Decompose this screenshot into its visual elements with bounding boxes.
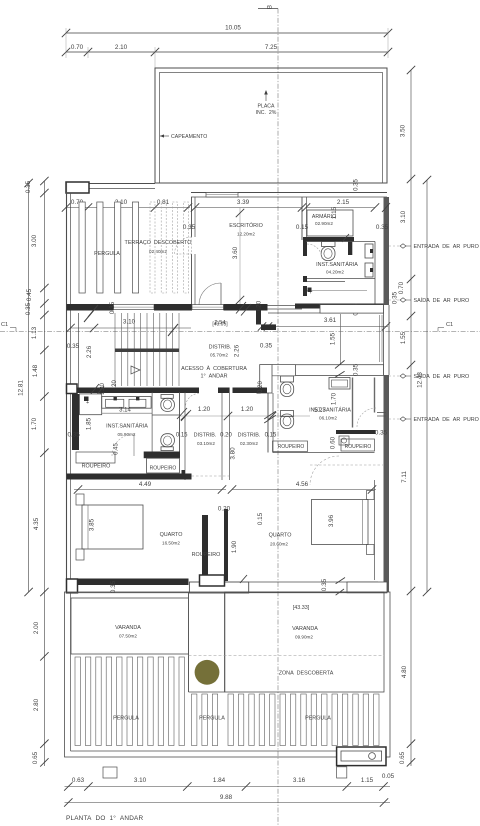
toilet 2 bowl xyxy=(161,434,175,447)
heater box xyxy=(339,436,349,445)
closet box right xyxy=(341,439,375,451)
right exterior wall lower xyxy=(384,375,390,592)
armario closet box xyxy=(307,210,353,236)
label SAIDA DE AR PURO 1 xyxy=(389,299,399,301)
svg-text:0.35: 0.35 xyxy=(376,224,389,231)
svg-text:0.45: 0.45 xyxy=(114,443,120,455)
svg-text:0.70: 0.70 xyxy=(398,281,405,294)
svg-text:ENTRADA DE AR PURO: ENTRADA DE AR PURO xyxy=(414,244,479,250)
svg-text:0.60: 0.60 xyxy=(330,436,337,449)
bathroom top wall segment a xyxy=(192,388,199,394)
escritorio vertical dim 3.60 xyxy=(239,208,241,306)
svg-text:2.26: 2.26 xyxy=(86,345,93,358)
svg-text:03.10m2: 03.10m2 xyxy=(197,441,215,446)
door arc left bathroom dashed xyxy=(112,434,134,456)
svg-text:1.15: 1.15 xyxy=(331,206,338,219)
extension lines top xyxy=(65,28,67,58)
bottom overall dim 9.88 xyxy=(65,802,391,804)
wall band y365-374 xyxy=(296,365,384,376)
bathroom bottom wall xyxy=(307,278,375,280)
svg-text:2.15: 2.15 xyxy=(337,199,350,206)
svg-text:12.81: 12.81 xyxy=(18,380,25,396)
door arc inst sanitaria top xyxy=(307,244,322,259)
left dim line outer 12.81 xyxy=(28,183,30,592)
armario bottom wall xyxy=(306,237,354,242)
svg-text:ESCRITÓRIO: ESCRITÓRIO xyxy=(229,222,263,229)
vanity basin 2 xyxy=(129,399,146,407)
door arc quarto right xyxy=(310,456,339,485)
bed right quarto xyxy=(312,500,369,545)
middle column walls xyxy=(188,592,190,692)
left dim line inner xyxy=(43,181,45,766)
break slashes right bottom wall xyxy=(336,578,345,584)
toilet 1 tank xyxy=(161,395,173,399)
right wall window section xyxy=(383,305,385,375)
bottom wall right thin line xyxy=(249,581,378,583)
bath wall vertical gray 2 xyxy=(374,378,376,413)
break slash armario bottom right xyxy=(342,234,349,242)
wall piece right of armario xyxy=(348,238,352,255)
label PLACA INC. 2% with up arrow xyxy=(265,92,267,101)
svg-text:2.10: 2.10 xyxy=(115,44,128,51)
pergola stripes middle xyxy=(192,694,197,746)
svg-text:0.15: 0.15 xyxy=(265,433,277,439)
svg-text:1.20: 1.20 xyxy=(198,406,211,413)
toilet 2 tank xyxy=(161,447,173,451)
svg-text:2.00: 2.00 xyxy=(33,621,40,634)
quarto right inner wall line xyxy=(374,480,376,580)
svg-text:0.35: 0.35 xyxy=(353,363,360,376)
right bathroom left wall double lines xyxy=(267,393,269,453)
varanda left box xyxy=(71,598,189,654)
svg-text:PERGULA: PERGULA xyxy=(94,251,120,257)
mid wall segment 3 xyxy=(224,304,268,311)
svg-text:02.90m2: 02.90m2 xyxy=(315,221,333,226)
svg-text:1.48: 1.48 xyxy=(32,364,39,377)
right exterior wall xyxy=(384,197,390,305)
break slash right bathroom wall xyxy=(264,411,276,419)
label ENTRADA DE AR PURO 2 xyxy=(389,418,399,420)
svg-text:[43.05]: [43.05] xyxy=(212,322,228,328)
stair break slash 2 xyxy=(168,324,178,336)
svg-text:TERRAÇO DESCOBERTO: TERRAÇO DESCOBERTO xyxy=(125,240,192,246)
bedside table 2 xyxy=(76,549,84,560)
mid wall window 2 xyxy=(192,305,224,310)
svg-text:0.35: 0.35 xyxy=(110,580,117,593)
stair left wall xyxy=(78,313,80,393)
svg-text:1.55: 1.55 xyxy=(330,332,337,345)
svg-text:4.49: 4.49 xyxy=(139,481,152,488)
tree circle olive xyxy=(195,660,220,685)
electrical box inner xyxy=(341,751,382,761)
svg-text:3.96: 3.96 xyxy=(328,514,335,527)
svg-text:ROUPEIRO: ROUPEIRO xyxy=(150,466,177,472)
svg-text:4.80: 4.80 xyxy=(401,665,408,678)
terrace boundary outer xyxy=(65,592,391,757)
terrace boundary inner bottom xyxy=(71,750,385,752)
dashed line corridor bottom xyxy=(187,475,229,477)
stair break slash 1 xyxy=(88,305,98,317)
toilet WC top-right tank xyxy=(322,242,336,247)
WC divider line xyxy=(152,414,179,416)
duct black corner square xyxy=(257,388,261,394)
bathroom top wall segment b xyxy=(218,388,230,394)
horizontal centreline C1 xyxy=(0,331,480,333)
svg-text:1.70: 1.70 xyxy=(31,417,38,430)
mid wall band left xyxy=(67,304,114,311)
bottom wall right white band xyxy=(347,582,387,593)
bidet right bathroom 1 xyxy=(281,376,294,382)
WC stall right wall double xyxy=(179,392,181,452)
svg-text:0.15: 0.15 xyxy=(257,512,264,525)
interior top wall escritorio/armario xyxy=(191,192,387,194)
svg-text:0.05: 0.05 xyxy=(382,773,395,780)
svg-text:ROUPEIRO: ROUPEIRO xyxy=(278,444,305,450)
label SAIDA DE AR PURO 2 xyxy=(389,375,399,377)
svg-text:PERGULA: PERGULA xyxy=(305,716,331,722)
closet corridor end white box xyxy=(189,582,248,593)
svg-text:0.45: 0.45 xyxy=(26,288,33,301)
svg-text:SAÍDA DE AR PURO: SAÍDA DE AR PURO xyxy=(414,297,470,304)
label CAPEAMENTO with arrow xyxy=(160,135,169,137)
svg-text:INST.SANITÁRIA: INST.SANITÁRIA xyxy=(106,423,148,430)
dimension 4.49 xyxy=(74,489,226,491)
svg-text:0.65: 0.65 xyxy=(399,751,406,764)
svg-text:INC. 2%: INC. 2% xyxy=(256,110,277,116)
svg-text:0.70: 0.70 xyxy=(71,44,84,51)
small room below bathroom xyxy=(303,286,307,296)
inst sanitaria 04.20 walls xyxy=(303,237,307,256)
svg-text:ZONA DESCOBERTA: ZONA DESCOBERTA xyxy=(279,671,334,677)
bottom wall right section xyxy=(295,304,384,309)
svg-text:0.81: 0.81 xyxy=(157,199,170,206)
svg-text:PERGULA: PERGULA xyxy=(113,716,139,722)
wall band above mid roupeiro xyxy=(144,452,180,459)
door arc right bathroom dashed xyxy=(357,408,376,427)
svg-text:3.60: 3.60 xyxy=(232,246,239,259)
svg-text:1.20: 1.20 xyxy=(241,406,254,413)
svg-text:SAÍDA DE AR PURO: SAÍDA DE AR PURO xyxy=(414,373,470,380)
svg-text:3.10: 3.10 xyxy=(123,319,136,326)
right dim line outer 12.43 xyxy=(426,180,428,592)
window right bathroom xyxy=(329,378,350,390)
vanity counter left bathroom xyxy=(102,397,151,409)
svg-text:02.40m2: 02.40m2 xyxy=(149,249,167,254)
shelf line small room xyxy=(307,290,367,292)
svg-text:1.15: 1.15 xyxy=(361,777,374,784)
stair landing rail xyxy=(115,349,179,353)
capeamento outer wall xyxy=(155,68,387,183)
electrical box circle xyxy=(369,753,376,760)
svg-text:VARANDA: VARANDA xyxy=(115,625,141,631)
bidet right bathroom 2 xyxy=(281,411,294,417)
dimension line 10.05 (top overall) xyxy=(66,32,388,34)
bottom wall lower line xyxy=(189,592,387,594)
svg-text:0.35: 0.35 xyxy=(354,179,360,191)
vertical line right void xyxy=(340,314,342,365)
svg-text:07.50m2: 07.50m2 xyxy=(119,634,137,639)
center walls vertical double xyxy=(221,393,223,480)
svg-text:7.25: 7.25 xyxy=(265,44,278,51)
svg-text:3.14: 3.14 xyxy=(119,408,131,414)
svg-text:C1: C1 xyxy=(1,322,8,328)
svg-text:PERGULA: PERGULA xyxy=(199,716,225,722)
svg-text:09.90m2: 09.90m2 xyxy=(295,635,313,640)
bedside table 1 xyxy=(76,494,84,505)
svg-text:CAPEAMENTO: CAPEAMENTO xyxy=(171,134,207,140)
dashed separator varanda/zona xyxy=(189,655,385,657)
bottom wall lower line left part xyxy=(67,592,190,594)
svg-text:4.35: 4.35 xyxy=(33,517,40,530)
svg-text:7.11: 7.11 xyxy=(401,471,408,483)
wall nib right xyxy=(377,412,386,414)
toilet WC top-right bowl xyxy=(321,247,335,261)
stair direction triangle xyxy=(131,366,140,374)
break slash WC wall xyxy=(177,408,187,419)
svg-text:0.35: 0.35 xyxy=(321,578,328,591)
svg-text:1.85: 1.85 xyxy=(86,417,93,430)
svg-text:1° ANDAR: 1° ANDAR xyxy=(200,374,227,380)
svg-text:06.10m2: 06.10m2 xyxy=(319,416,337,421)
svg-text:[43.33]: [43.33] xyxy=(293,605,310,611)
wall below roupeiro xyxy=(67,474,192,480)
door swing dashes distrib xyxy=(186,394,200,408)
dashed line roupeiro right xyxy=(310,464,383,466)
svg-text:QUARTO: QUARTO xyxy=(269,533,292,539)
right mid white wall band xyxy=(320,305,384,314)
stair treads xyxy=(114,313,116,386)
shower stall xyxy=(80,394,102,415)
bottom dim line segments xyxy=(65,786,391,788)
svg-text:PLACA: PLACA xyxy=(257,104,275,110)
left bathroom outer wall black xyxy=(72,394,79,450)
svg-text:1.20: 1.20 xyxy=(100,383,106,395)
svg-text:2.80: 2.80 xyxy=(33,698,40,711)
svg-text:0.20: 0.20 xyxy=(258,381,264,393)
washbasin right 2 xyxy=(365,263,373,277)
dimension 3.61 xyxy=(262,326,388,328)
bed left quarto xyxy=(82,505,143,549)
bathroom top wall band xyxy=(72,388,192,394)
terraco hatch stripes dashed xyxy=(150,202,155,293)
duct shaft outline right of distrib xyxy=(260,365,272,393)
svg-text:3.61: 3.61 xyxy=(324,317,337,324)
escritorio dimension 3.39 xyxy=(195,207,302,209)
downspout left xyxy=(103,767,117,778)
basin wall line xyxy=(374,242,376,306)
svg-text:4.56: 4.56 xyxy=(296,481,309,488)
window top wall escritorio xyxy=(206,193,238,198)
svg-text:10.05: 10.05 xyxy=(225,25,241,32)
right wall glass lines xyxy=(379,315,381,362)
svg-text:0.15: 0.15 xyxy=(176,433,188,439)
svg-text:0.20: 0.20 xyxy=(218,506,231,513)
svg-text:0.35: 0.35 xyxy=(260,343,273,350)
svg-text:0.35: 0.35 xyxy=(109,301,116,314)
roupeiro right wall band xyxy=(336,430,376,434)
svg-text:ROUPEIRO: ROUPEIRO xyxy=(345,444,372,450)
door arc escritorio-terraco xyxy=(175,237,192,254)
svg-text:05.90m2: 05.90m2 xyxy=(118,432,136,437)
svg-text:DISTRIB.: DISTRIB. xyxy=(194,433,217,439)
svg-text:0.35: 0.35 xyxy=(67,343,80,350)
pergola stripes left xyxy=(75,657,80,746)
bedside table r2 xyxy=(367,545,375,555)
dimension 4.56 xyxy=(232,489,376,491)
WC stall left wall xyxy=(151,392,153,452)
pergola stripes right xyxy=(228,694,233,746)
svg-text:3.10: 3.10 xyxy=(400,210,407,223)
electrical box outer xyxy=(337,747,386,766)
svg-text:0.65: 0.65 xyxy=(32,751,39,764)
downspout right xyxy=(337,767,347,778)
wall nib 2.54 horizontal xyxy=(261,324,276,330)
vertical centreline B xyxy=(277,9,279,826)
svg-text:DISTRIB.: DISTRIB. xyxy=(238,433,261,439)
wall vertical below mid band xyxy=(256,311,261,325)
toilet 1 bowl xyxy=(161,398,175,411)
svg-text:1.90: 1.90 xyxy=(231,540,238,553)
svg-text:1.70: 1.70 xyxy=(331,392,338,405)
dimension line 0.70 / 2.10 / 7.25 (top) xyxy=(66,51,388,53)
wall end black blob xyxy=(182,470,186,477)
svg-text:0.35: 0.35 xyxy=(375,430,388,437)
diagonal door mark xyxy=(240,575,247,583)
svg-text:05.70m2: 05.70m2 xyxy=(210,353,228,358)
svg-text:DISTRIB.: DISTRIB. xyxy=(209,345,232,351)
svg-text:INST.SANITÁRIA: INST.SANITÁRIA xyxy=(316,261,358,268)
mid wall segment 2 xyxy=(154,304,192,311)
break slash mid wall right xyxy=(236,302,246,314)
dimension 3.10 corridor xyxy=(71,327,192,329)
svg-text:3.10: 3.10 xyxy=(134,777,147,784)
svg-text:5.27: 5.27 xyxy=(314,408,326,414)
svg-text:1.13: 1.13 xyxy=(31,326,38,339)
svg-text:2.26: 2.26 xyxy=(234,344,241,357)
svg-text:3.50: 3.50 xyxy=(400,124,407,137)
break slash bathroom top wall xyxy=(89,384,99,396)
bedside table r1 xyxy=(367,491,375,500)
escritorio right wall xyxy=(301,197,303,240)
closet box center-right xyxy=(273,441,308,452)
mid wall window 1 xyxy=(114,305,155,310)
svg-text:3.39: 3.39 xyxy=(237,199,250,206)
svg-text:04.20m2: 04.20m2 xyxy=(326,270,344,275)
break slash right wall top xyxy=(382,203,390,212)
varanda right box xyxy=(225,592,384,692)
pergula hatch stripes solid xyxy=(79,202,85,293)
stair foot pillar xyxy=(67,384,78,394)
escritorio bottom wall double xyxy=(192,305,200,307)
mid roupeiro box xyxy=(147,458,180,473)
svg-text:3.16: 3.16 xyxy=(293,777,306,784)
svg-text:9.88: 9.88 xyxy=(220,794,233,801)
svg-text:20.60m2: 20.60m2 xyxy=(270,542,288,547)
line below roupeiro boxes xyxy=(273,452,375,454)
pillar top-left xyxy=(66,182,89,193)
bath wall vertical gray 1 xyxy=(352,378,354,428)
washbasin right 1 xyxy=(365,244,373,258)
quarto left closet wall 1 xyxy=(202,515,208,581)
band connector lines left xyxy=(272,364,296,366)
bedroom bottom wall left black xyxy=(67,579,189,586)
svg-text:ROUPEIRO: ROUPEIRO xyxy=(192,552,221,558)
label ENTRADA DE AR PURO 1 xyxy=(389,245,399,247)
svg-text:3.85: 3.85 xyxy=(89,518,96,531)
vanity basin 1 xyxy=(106,399,124,407)
svg-text:02.30m2: 02.30m2 xyxy=(240,441,258,446)
counter front line xyxy=(102,412,152,414)
svg-text:ACESSO À COBERTURA: ACESSO À COBERTURA xyxy=(181,365,247,372)
svg-text:PLANTA DO 1° ANDAR: PLANTA DO 1° ANDAR xyxy=(66,814,143,822)
top wall double line left section xyxy=(89,183,155,185)
svg-text:1.55: 1.55 xyxy=(400,331,407,344)
armario dimension 2.15 xyxy=(306,207,375,209)
break slashes on band xyxy=(335,360,345,368)
svg-text:3.00: 3.00 xyxy=(31,234,38,247)
svg-text:0.35: 0.35 xyxy=(392,291,399,304)
svg-text:3.80: 3.80 xyxy=(230,447,237,460)
quarto left closet wall 2 xyxy=(224,509,228,581)
bathroom top wall segments right xyxy=(233,388,268,394)
left exterior wall double line xyxy=(66,183,68,592)
capeamento inner line xyxy=(160,73,383,184)
bottom-left corner pillar xyxy=(67,579,78,593)
dim line doors xyxy=(180,415,310,417)
svg-text:VARANDA: VARANDA xyxy=(292,626,318,632)
closet shelf box left xyxy=(76,452,115,463)
svg-text:0.35: 0.35 xyxy=(183,224,196,231)
svg-text:QUARTO: QUARTO xyxy=(160,532,183,538)
door escritorio bottom xyxy=(220,283,222,305)
svg-text:1.84: 1.84 xyxy=(213,777,226,784)
svg-text:0.63: 0.63 xyxy=(72,777,85,784)
svg-text:0.35: 0.35 xyxy=(67,432,80,439)
escritorio lower line to right wall xyxy=(268,312,383,314)
svg-text:16.50m2: 16.50m2 xyxy=(162,541,180,546)
terraco inner dimension line 0.70/2.10/0.81 xyxy=(66,207,190,209)
right dim line inner xyxy=(410,70,412,766)
terraco right wall / escritorio left wall xyxy=(191,197,193,237)
svg-text:ROUPEIRO: ROUPEIRO xyxy=(82,464,111,470)
svg-text:ENTRADA DE AR PURO: ENTRADA DE AR PURO xyxy=(414,417,479,423)
svg-text:C1: C1 xyxy=(446,322,453,328)
bedroom bottom wall pillar xyxy=(200,575,225,586)
